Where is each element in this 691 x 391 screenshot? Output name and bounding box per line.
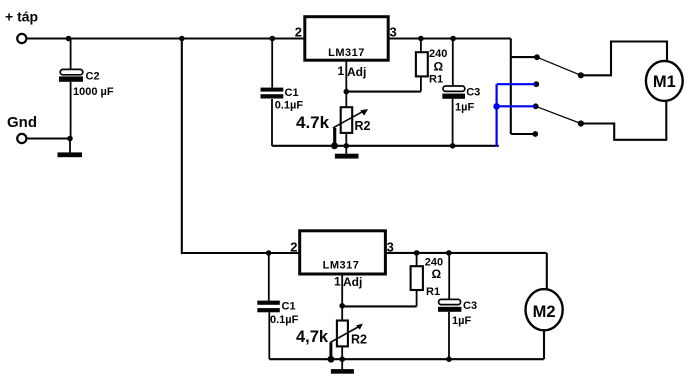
- svg-text:R1: R1: [426, 286, 440, 298]
- potentiometer R2 lower: [330, 306, 363, 359]
- svg-text:Adj: Adj: [343, 275, 362, 289]
- ground symbol input: [58, 139, 83, 158]
- wire adj pin upper: [345, 60, 347, 91]
- switch arm 2: [536, 106, 581, 123]
- wire blue to contact 3: [497, 105, 536, 107]
- svg-text:C1: C1: [285, 87, 299, 99]
- svg-text:Adj: Adj: [347, 65, 366, 79]
- wire output rail lower: [385, 252, 547, 254]
- junction C1 top (upper): [270, 36, 276, 42]
- capacitor C1 lower: [257, 253, 280, 359]
- capacitor C3 upper: [442, 39, 465, 147]
- svg-text:3: 3: [390, 25, 397, 40]
- wire +tap rail left: [26, 37, 305, 39]
- wire main vertical to lower circuit: [182, 39, 300, 254]
- svg-text:R1: R1: [429, 74, 443, 86]
- svg-text:4.7k: 4.7k: [296, 113, 330, 132]
- junction main rail split: [179, 36, 185, 42]
- wire M1 bottom to pivot2: [581, 101, 666, 140]
- switch arm 1: [537, 57, 581, 75]
- wire switch bus: [510, 39, 512, 135]
- wire stub contact 1: [511, 56, 537, 58]
- svg-text:M2: M2: [533, 303, 556, 321]
- motor M2: [526, 289, 563, 330]
- node contact 4: [532, 131, 538, 137]
- junction R2 bottom upper: [344, 143, 350, 149]
- svg-text:+ táp: + táp: [5, 9, 38, 25]
- wire adj pin lower: [341, 274, 343, 306]
- node contact 1: [534, 54, 540, 60]
- junction adj node lower: [339, 303, 345, 309]
- ground symbol upper: [335, 146, 359, 159]
- op-amp U1 LM317 upper: [305, 17, 388, 61]
- capacitor C3 lower: [438, 253, 461, 359]
- junction wiper upper: [331, 142, 338, 149]
- node pivot 2: [578, 120, 584, 126]
- junction Gnd node: [67, 136, 73, 142]
- node contact 2: [533, 81, 539, 87]
- svg-text:LM317: LM317: [323, 259, 360, 271]
- junction R2 bottom lower: [339, 356, 345, 362]
- svg-text:0.1µF: 0.1µF: [270, 314, 299, 326]
- wire stub contact 4: [511, 133, 536, 135]
- svg-text:4,7k: 4,7k: [296, 328, 329, 346]
- svg-text:Ω: Ω: [432, 267, 442, 281]
- svg-text:Ω: Ω: [434, 59, 444, 73]
- wire Gnd: [26, 137, 70, 139]
- svg-text:1: 1: [334, 274, 341, 288]
- wire ground rail lower: [269, 358, 544, 360]
- junction R1 top lower: [414, 250, 420, 256]
- wire adj to R1 upper: [346, 91, 421, 93]
- wire blue return vertical: [496, 84, 498, 146]
- junction adj node upper: [344, 89, 350, 95]
- junction C3 top lower: [446, 250, 452, 256]
- junction wiper lower: [328, 356, 335, 363]
- svg-text:1µF: 1µF: [452, 315, 471, 327]
- wire adj to R1 lower: [342, 305, 416, 307]
- svg-text:R2: R2: [351, 333, 367, 347]
- wire ground rail upper: [272, 145, 499, 147]
- node contact 3: [533, 103, 539, 109]
- wire output rail upper: [388, 37, 511, 39]
- junction blue node: [493, 103, 500, 110]
- op-amp U2 LM317 lower: [300, 231, 386, 274]
- svg-text:M1: M1: [653, 73, 676, 91]
- svg-text:C3: C3: [466, 86, 480, 98]
- terminal +tap: [17, 34, 26, 43]
- junction C3 bottom upper: [450, 143, 456, 149]
- svg-text:LM317: LM317: [328, 47, 365, 59]
- junction lower rail split: [266, 250, 272, 256]
- node pivot 1: [578, 72, 584, 78]
- svg-text:2: 2: [290, 239, 297, 254]
- terminal Gnd: [17, 134, 26, 143]
- junction R1 top upper: [418, 36, 424, 42]
- ground symbol lower: [331, 359, 354, 374]
- svg-text:240: 240: [429, 48, 447, 60]
- svg-text:0.1µF: 0.1µF: [275, 100, 304, 112]
- wire M2 bottom: [543, 330, 545, 359]
- capacitor C1 upper: [261, 39, 284, 147]
- svg-text:2: 2: [295, 25, 302, 40]
- svg-text:C2: C2: [86, 71, 100, 83]
- svg-text:1µF: 1µF: [455, 102, 474, 114]
- resistor R1 upper: [416, 39, 428, 92]
- svg-text:Gnd: Gnd: [7, 114, 37, 131]
- wire rail to M2 top: [546, 253, 548, 291]
- junction C3 top upper: [450, 36, 456, 42]
- junction C3 bottom lower: [446, 356, 452, 362]
- svg-text:C1: C1: [282, 300, 296, 312]
- svg-text:C3: C3: [463, 300, 477, 312]
- motor M1: [646, 61, 683, 101]
- svg-text:R2: R2: [355, 119, 371, 133]
- junction C2 top: [66, 36, 72, 42]
- wire blue to contact 2: [497, 83, 536, 85]
- svg-text:1: 1: [338, 64, 345, 78]
- svg-text:1000 µF: 1000 µF: [73, 86, 114, 98]
- wire pivot1 to M1 top: [581, 42, 667, 76]
- potentiometer R2 upper: [333, 92, 368, 146]
- resistor R1 lower: [411, 253, 423, 307]
- capacitor C2: [59, 39, 83, 139]
